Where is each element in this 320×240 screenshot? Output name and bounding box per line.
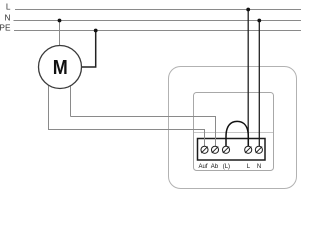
svg-text:Ab: Ab <box>211 164 219 170</box>
svg-text:PE: PE <box>0 22 11 32</box>
svg-text:(L): (L) <box>223 164 230 170</box>
svg-text:M: M <box>53 57 68 79</box>
svg-text:N: N <box>257 164 261 170</box>
svg-text:L: L <box>6 1 11 11</box>
svg-text:Auf: Auf <box>198 164 207 170</box>
svg-text:N: N <box>5 12 11 22</box>
